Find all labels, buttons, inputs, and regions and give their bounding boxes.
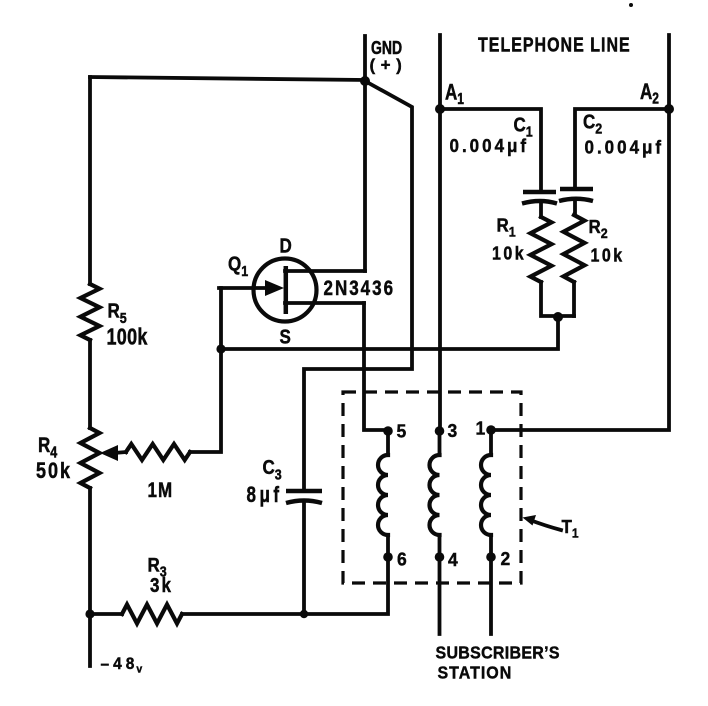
svg-text:50k: 50k bbox=[36, 459, 72, 483]
svg-text:8μf: 8μf bbox=[247, 483, 283, 508]
wire drain to GND node bbox=[363, 81, 367, 271]
transistor Q1 2N3436 bbox=[219, 234, 395, 348]
wire telephone line A1 vertical bbox=[438, 35, 442, 431]
transformer T1 dashed box bbox=[343, 392, 521, 583]
wire A2 to C2 bbox=[575, 109, 669, 188]
svg-text:10k: 10k bbox=[591, 244, 625, 265]
svg-text:10k: 10k bbox=[492, 242, 526, 263]
node bottom-left junction bbox=[85, 609, 94, 618]
node pin 4 bbox=[435, 550, 458, 570]
resistor R5 bbox=[81, 284, 148, 350]
node C3 bottom junction bbox=[300, 610, 308, 618]
node A1 bbox=[435, 80, 464, 114]
node gate rail junction bbox=[216, 344, 225, 353]
svg-text:S: S bbox=[280, 325, 291, 348]
wire R1 bottom bbox=[541, 282, 574, 316]
resistor R2 bbox=[564, 215, 625, 282]
wire 1M to gate rail bbox=[190, 288, 221, 452]
wire pin 2 to subscriber station bbox=[489, 557, 493, 634]
node pin 2 bbox=[486, 549, 510, 569]
node A2 bbox=[640, 80, 674, 114]
wire GND diagonal down to C3 top branch bbox=[304, 81, 412, 489]
svg-text:5: 5 bbox=[397, 421, 407, 441]
resistor R1 bbox=[492, 215, 552, 282]
label SUBSCRIBER'S STATION bbox=[436, 643, 560, 683]
ground GND (+) bbox=[365, 36, 407, 81]
node R1 R2 junction bbox=[553, 312, 563, 322]
winding 3-4 bbox=[430, 431, 440, 557]
wire pin 4 to subscriber station bbox=[438, 557, 442, 634]
svg-text:2N3436: 2N3436 bbox=[324, 277, 396, 300]
wire A1 to C1 bbox=[440, 109, 541, 192]
winding 5-6 bbox=[378, 431, 388, 557]
wire telephone line A2 vertical and lead to pin 1 bbox=[491, 35, 669, 430]
wire source down to transformer pin 5 bbox=[364, 303, 388, 430]
resistor 1M bbox=[126, 444, 190, 503]
svg-text:3k: 3k bbox=[150, 574, 173, 597]
svg-text:6: 6 bbox=[397, 549, 407, 569]
svg-text:0.004μf: 0.004μf bbox=[585, 137, 665, 158]
wire R2 bottom bbox=[572, 282, 576, 316]
node pin 3 bbox=[435, 421, 458, 441]
svg-text:0.004μf: 0.004μf bbox=[450, 135, 530, 156]
svg-text:TELEPHONE LINE: TELEPHONE LINE bbox=[478, 34, 631, 56]
node pin 6 bbox=[383, 549, 407, 569]
wire left rail between R5 and R4 bbox=[88, 340, 92, 428]
svg-text:1M: 1M bbox=[148, 479, 174, 502]
potentiometer R4 bbox=[36, 428, 126, 488]
svg-text:D: D bbox=[280, 234, 292, 257]
node GND junction bbox=[360, 76, 370, 86]
capacitor C1 bbox=[450, 113, 558, 217]
node pin 5 bbox=[383, 421, 406, 441]
svg-text:(+): (+) bbox=[370, 56, 408, 75]
capacitor C3 bbox=[247, 456, 323, 614]
svg-text:4: 4 bbox=[448, 550, 458, 570]
capacitor C2 bbox=[559, 110, 664, 215]
svg-text:STATION: STATION bbox=[438, 663, 513, 683]
resistor R3 bbox=[90, 553, 182, 623]
svg-text:3: 3 bbox=[448, 421, 458, 441]
winding 1-2 bbox=[481, 430, 491, 557]
wire left rail upper segment bbox=[88, 77, 92, 284]
node pin 1 bbox=[476, 418, 496, 438]
label TELEPHONE LINE bbox=[478, 34, 631, 56]
svg-text:SUBSCRIBER’S: SUBSCRIBER’S bbox=[436, 643, 560, 663]
label -48v bbox=[101, 656, 147, 676]
wire top horizontal from left rail to GND node bbox=[90, 77, 365, 80]
label T1 with arrow bbox=[523, 515, 579, 541]
svg-text:1: 1 bbox=[476, 418, 486, 438]
wire bottom horizontal to transformer pin 6 bbox=[182, 557, 388, 614]
wire gate-line horizontal to R1R2 junction bbox=[221, 318, 558, 349]
svg-text:2: 2 bbox=[501, 549, 511, 569]
svg-text:100k: 100k bbox=[107, 325, 148, 350]
wire left rail lower segment bbox=[88, 488, 92, 666]
speck top right bbox=[629, 3, 633, 7]
